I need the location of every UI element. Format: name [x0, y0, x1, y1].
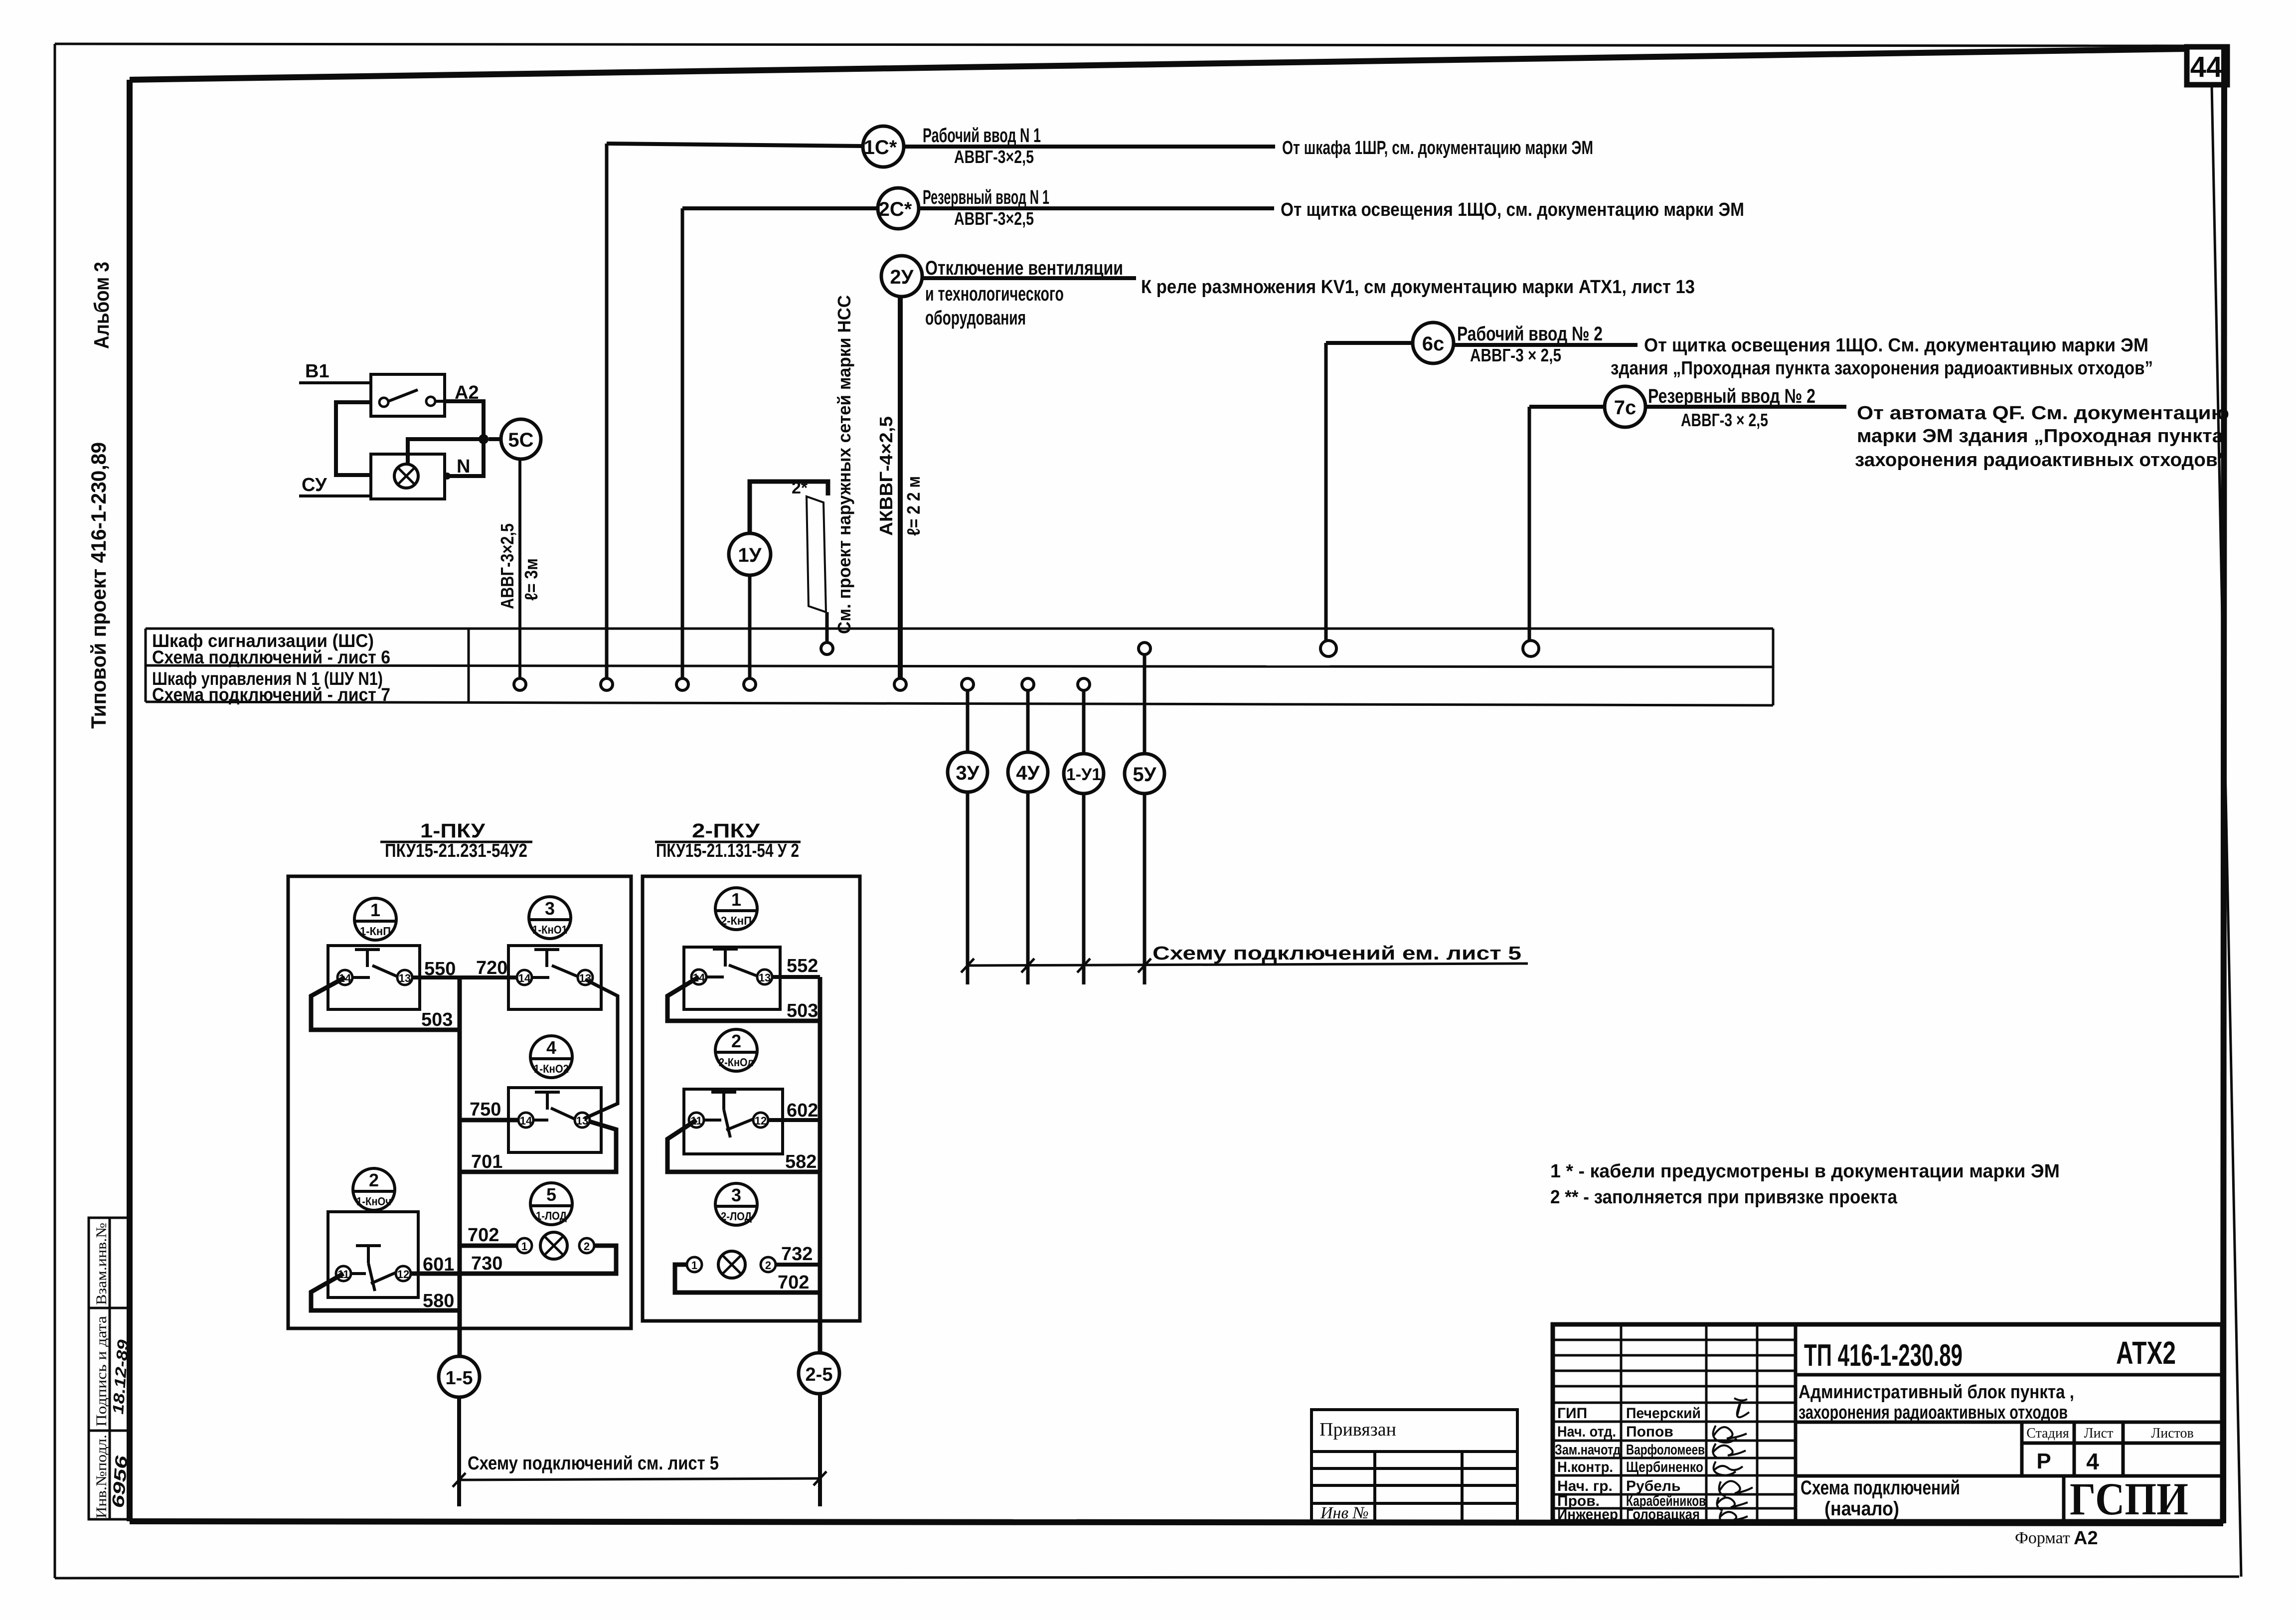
- svg-text:От автомата QF. См. документац: От автомата QF. См. документацию: [1857, 403, 2229, 424]
- tick marks: [961, 959, 1151, 972]
- svg-text:1-У1: 1-У1: [1066, 765, 1101, 784]
- svg-text:оборудования: оборудования: [925, 307, 1026, 329]
- svg-text:5: 5: [546, 1184, 556, 1205]
- svg-text:1-КнО1: 1-КнО1: [532, 923, 567, 936]
- svg-text:44: 44: [2190, 51, 2223, 83]
- wire below 1-5: [457, 1397, 461, 1506]
- contact symbol: [704, 1092, 753, 1137]
- node terminal 1C at bus: [601, 678, 613, 690]
- svg-text:14: 14: [518, 972, 531, 984]
- svg-text:ℓ= 3м: ℓ= 3м: [521, 558, 541, 601]
- wire 503 (2-ПКУ): [667, 977, 820, 1021]
- pin 13: [397, 970, 412, 985]
- svg-text:Р: Р: [2036, 1449, 2051, 1473]
- svg-text:Схема подключений - лист 7: Схема подключений - лист 7: [152, 684, 390, 705]
- switch contact left: [379, 398, 388, 407]
- svg-text:ГИП: ГИП: [1557, 1405, 1587, 1422]
- node terminal 1У1 at bus: [1078, 678, 1090, 690]
- svg-text:Резервный ввод N 1: Резервный ввод N 1: [923, 186, 1049, 208]
- panel box 1-ПКУ: [288, 876, 631, 1328]
- svg-text:Рабочий ввод № 2: Рабочий ввод № 2: [1457, 323, 1603, 345]
- pin 14: [337, 970, 352, 985]
- contact block 1-КнОч: [328, 1212, 418, 1297]
- lamp pin 1: [687, 1257, 702, 1272]
- svg-text:Головацкая: Головацкая: [1626, 1506, 1700, 1523]
- svg-text:АВВГ-3 × 2,5: АВВГ-3 × 2,5: [1470, 345, 1561, 365]
- svg-text:503: 503: [421, 1009, 453, 1030]
- svg-text:ПКУ15-21.231-54У2: ПКУ15-21.231-54У2: [385, 840, 527, 861]
- wire 730 return: [460, 1246, 616, 1274]
- svg-text:3У: 3У: [956, 762, 980, 784]
- svg-text:(начало): (начало): [1824, 1498, 1899, 1520]
- svg-text:1-КнО2: 1-КнО2: [534, 1062, 569, 1075]
- wire feeder 6с drop to bus: [1324, 343, 1328, 641]
- svg-text:2: 2: [731, 1031, 741, 1051]
- wire lamp feed from junction: [408, 439, 484, 464]
- node terminal 5У at bus: [1139, 643, 1150, 654]
- svg-text:702: 702: [468, 1225, 499, 1246]
- lamp pin 2: [761, 1257, 776, 1272]
- wire feeder 1C horizontal: [607, 144, 863, 146]
- node 4У circle: [1008, 752, 1048, 792]
- svg-text:А2: А2: [2074, 1528, 2098, 1549]
- pin 14: [691, 970, 706, 984]
- wire 1У riser to НСС: [750, 482, 828, 533]
- svg-text:7с: 7с: [1614, 397, 1637, 419]
- wire 5У: [1143, 654, 1147, 984]
- wire СУ input: [299, 494, 372, 497]
- svg-text:Печерский: Печерский: [1626, 1405, 1701, 1422]
- svg-text:СУ: СУ: [302, 475, 327, 495]
- node 3У circle: [948, 752, 987, 792]
- wire 702 return (2-ПКУ): [675, 1265, 820, 1293]
- svg-text:Схема подключений: Схема подключений: [1801, 1477, 1960, 1499]
- lamp pin 1: [517, 1238, 532, 1253]
- svg-text:2 ** - заполняется при привя: 2 ** - заполняется при привязке проекта: [1550, 1187, 1898, 1208]
- svg-text:730: 730: [471, 1253, 502, 1274]
- svg-text:1-ПКУ: 1-ПКУ: [420, 820, 486, 842]
- contact symbol: [351, 1246, 396, 1291]
- contact block 1-КнП: [328, 946, 420, 1009]
- lamp 1-ЛОД: [540, 1232, 567, 1259]
- svg-text:3: 3: [545, 898, 555, 919]
- svg-text:ℓ= 2 2 м: ℓ= 2 2 м: [903, 476, 924, 536]
- node 5У circle: [1125, 754, 1164, 794]
- svg-text:Щербиненко: Щербиненко: [1626, 1459, 1703, 1475]
- svg-text:Лист: Лист: [2084, 1426, 2114, 1441]
- svg-text:580: 580: [423, 1291, 454, 1311]
- margin stamp table (rotated): [89, 1218, 131, 1519]
- device circle 1 / 1-КнП: [354, 898, 396, 940]
- wire bypass left: [336, 402, 371, 475]
- contact symbol: [706, 949, 757, 977]
- lamp box: [371, 454, 445, 499]
- node terminal 2У at bus: [894, 678, 906, 690]
- wire 582: [667, 1120, 820, 1172]
- svg-text:1-КнП: 1-КнП: [360, 925, 391, 938]
- node 5C circle: [501, 419, 541, 459]
- svg-text:Н.контр.: Н.контр.: [1557, 1459, 1613, 1475]
- wire feeder 1C drop to bus: [605, 144, 609, 678]
- title block frame: [1553, 1324, 2222, 1521]
- contact block 2-КнП: [684, 947, 780, 1009]
- svg-text:марки ЭМ здания „Проходная пун: марки ЭМ здания „Проходная пункта: [1857, 426, 2224, 447]
- svg-text:582: 582: [785, 1151, 817, 1172]
- pin 14: [517, 970, 532, 985]
- pin 13: [578, 970, 593, 985]
- wire feeder 2У underline: [922, 276, 1136, 280]
- node 6с circle: [1413, 323, 1454, 363]
- device circle 1 / 2-КнП: [715, 888, 757, 930]
- svg-text:720: 720: [476, 958, 507, 978]
- wire 550/720: [412, 975, 517, 979]
- lamp pin 2: [579, 1238, 594, 1253]
- node terminal 6с at bus: [1320, 641, 1336, 656]
- svg-text:В1: В1: [305, 361, 329, 382]
- pin 11: [689, 1113, 704, 1128]
- svg-text:Инв №: Инв №: [1320, 1504, 1369, 1522]
- svg-text:1: 1: [370, 900, 380, 920]
- svg-text:5У: 5У: [1133, 764, 1156, 786]
- device circle 4 / 1-КнО2: [530, 1036, 572, 1078]
- svg-text:1-ЛОД: 1-ЛОД: [536, 1209, 567, 1222]
- wire 602: [768, 1118, 820, 1122]
- wire 732: [776, 1263, 820, 1267]
- wire 3У: [966, 690, 970, 984]
- svg-text:АВВГ-3×2,5: АВВГ-3×2,5: [954, 147, 1034, 167]
- svg-text:750: 750: [470, 1099, 501, 1120]
- svg-text:N: N: [457, 456, 470, 477]
- pin 12: [753, 1113, 768, 1128]
- pin 11: [336, 1266, 351, 1281]
- device circle 2 / 2-КнОл: [715, 1029, 757, 1071]
- svg-text:АТХ2: АТХ2: [2116, 1335, 2176, 1371]
- svg-text:От щитка освещения 1ЩО. См. до: От щитка освещения 1ЩО. См. документацию…: [1644, 335, 2148, 356]
- svg-text:2-ЛОД: 2-ЛОД: [721, 1210, 752, 1223]
- svg-text:Нач. гр.: Нач. гр.: [1557, 1478, 1613, 1494]
- svg-text:ГСПИ: ГСПИ: [2070, 1473, 2188, 1524]
- svg-text:2*: 2*: [792, 479, 808, 497]
- svg-text:2: 2: [584, 1240, 590, 1253]
- node 7с circle: [1605, 386, 1645, 427]
- svg-text:732: 732: [781, 1244, 813, 1265]
- switch contact right: [426, 397, 435, 406]
- node terminal 3У at bus: [962, 678, 974, 690]
- signatures: [1713, 1398, 1753, 1523]
- svg-text:АВВГ-3×2,5: АВВГ-3×2,5: [497, 523, 517, 609]
- node 1У1 circle: [1064, 754, 1104, 794]
- svg-text:3: 3: [731, 1185, 741, 1205]
- wire feeder 7с to text: [1645, 405, 1846, 409]
- pin 13: [757, 970, 772, 984]
- wire feeder 2У drop to bus (АКВВГ): [898, 297, 903, 678]
- svg-text:4У: 4У: [1016, 762, 1040, 784]
- cabinet table box (ШС/ШУ): [146, 629, 1773, 705]
- svg-text:1: 1: [521, 1240, 527, 1253]
- switch box A2: [371, 374, 445, 416]
- svg-text:Инв.№подл.: Инв.№подл.: [93, 1435, 110, 1518]
- wire feeder 1C to text: [904, 145, 1275, 149]
- svg-text:702: 702: [778, 1272, 809, 1293]
- wire 503: [311, 977, 460, 1030]
- wire 1У1: [1082, 690, 1086, 984]
- device circle 5 / 1-ЛОД: [530, 1183, 572, 1225]
- wire feeder 7с horizontal left: [1529, 405, 1605, 409]
- contact symbol: [532, 950, 578, 977]
- pin 13: [575, 1113, 590, 1128]
- device circle 3 / 1-КнО1: [529, 897, 571, 939]
- svg-text:АВВГ-3 × 2,5: АВВГ-3 × 2,5: [1681, 410, 1768, 430]
- node terminal 5C at bus: [514, 678, 526, 690]
- svg-text:1У: 1У: [738, 544, 762, 566]
- wire feeder 6с horizontal left: [1326, 341, 1413, 345]
- svg-text:Схему подключений см. лист 5: Схему подключений см. лист 5: [468, 1453, 719, 1474]
- svg-text:Зам.начотд: Зам.начотд: [1555, 1442, 1621, 1458]
- svg-text:2У: 2У: [890, 266, 914, 288]
- svg-text:6с: 6с: [1422, 333, 1445, 355]
- svg-text:Резервный ввод № 2: Резервный ввод № 2: [1648, 385, 1815, 407]
- svg-text:2-5: 2-5: [806, 1364, 833, 1385]
- svg-text:Варфоломеев: Варфоломеев: [1626, 1442, 1705, 1458]
- panel box 2-ПКУ: [643, 876, 860, 1321]
- svg-text:1 * - кабели предусмотрены: 1 * - кабели предусмотрены в документаци…: [1550, 1161, 2060, 1182]
- svg-text:4: 4: [546, 1037, 556, 1058]
- svg-text:1С*: 1С*: [864, 137, 897, 159]
- node 1C* circle: [863, 126, 904, 167]
- wire 552: [772, 975, 820, 979]
- svg-text:2: 2: [369, 1170, 379, 1190]
- svg-text:552: 552: [787, 956, 818, 976]
- contact block 2-КнОл: [684, 1089, 783, 1154]
- wire 1У drop to bus: [748, 575, 752, 678]
- svg-text:Инженер: Инженер: [1557, 1506, 1618, 1523]
- wire N: [447, 439, 484, 476]
- svg-text:захоронения радиоактивных отхо: захоронения радиоактивных отходов”: [1855, 450, 2227, 471]
- node dot N/A2 junction: [479, 434, 489, 444]
- svg-text:4: 4: [2086, 1449, 2099, 1474]
- svg-text:1: 1: [731, 889, 741, 910]
- svg-text:Рубель: Рубель: [1626, 1478, 1680, 1494]
- svg-text:2С*: 2С*: [879, 198, 912, 220]
- svg-text:АКВВГ-4×2,5: АКВВГ-4×2,5: [876, 416, 896, 536]
- device circle 3 / 2-ЛОД: [715, 1183, 757, 1225]
- svg-text:Нач. отд.: Нач. отд.: [1557, 1424, 1616, 1440]
- svg-text:2-КнП: 2-КнП: [721, 914, 752, 927]
- svg-text:здания „Проходная пункта захор: здания „Проходная пункта захоронения рад…: [1611, 358, 2153, 379]
- svg-text:13: 13: [399, 972, 411, 984]
- svg-text:От щитка освещения 1ЩО, см. до: От щитка освещения 1ЩО, см. документацию…: [1281, 199, 1744, 220]
- wire trunk B: [818, 977, 822, 1353]
- svg-text:12: 12: [397, 1268, 409, 1281]
- wire feeder 2C drop to bus: [681, 208, 684, 678]
- wire feeder 2C horizontal: [682, 206, 878, 210]
- svg-text:Стадия: Стадия: [2026, 1426, 2069, 1441]
- svg-text:5С: 5С: [508, 429, 533, 451]
- svg-text:Отключение вентиляции: Отключение вентиляции: [925, 257, 1123, 279]
- svg-text:1: 1: [691, 1259, 697, 1272]
- contact block 1-КнО1: [508, 946, 601, 1009]
- lamp 2-ЛОД: [718, 1251, 745, 1278]
- dimension line (см. лист 5, bottom): [459, 1478, 820, 1480]
- node 2У circle: [881, 256, 922, 297]
- contact symbol: [533, 1092, 575, 1120]
- svg-text:Листов: Листов: [2151, 1426, 2194, 1441]
- svg-text:Рабочий ввод N 1: Рабочий ввод N 1: [923, 125, 1041, 147]
- node terminal 7с at bus: [1523, 641, 1539, 656]
- contact symbol: [352, 950, 397, 977]
- device circle 2 / 1-КнОч: [353, 1168, 395, 1210]
- connector strip symbol (2*): [807, 496, 826, 612]
- node 1У circle: [729, 533, 771, 575]
- node terminal 2C at bus: [676, 678, 688, 690]
- svg-text:14: 14: [520, 1115, 532, 1127]
- svg-text:Альбом 3: Альбом 3: [90, 262, 113, 349]
- pin 12: [396, 1266, 411, 1281]
- node 2C* circle: [878, 188, 919, 229]
- wire junction to 5C: [489, 437, 501, 441]
- svg-text:Схему подключений ем. лист 5: Схему подключений ем. лист 5: [1152, 943, 1521, 964]
- wire 5C drop to bus: [518, 459, 521, 678]
- wire 4У: [1026, 690, 1030, 984]
- node terminal 4У at bus: [1022, 678, 1034, 690]
- svg-text:Типовой проект 416-1-230,89: Типовой проект 416-1-230,89: [87, 442, 110, 729]
- svg-text:2: 2: [765, 1259, 771, 1272]
- wire feeder 2C to text: [919, 206, 1274, 210]
- wire B1 input: [299, 381, 372, 384]
- svg-text:602: 602: [787, 1100, 818, 1121]
- wire feeder 7с drop to bus: [1528, 407, 1531, 641]
- svg-text:См. проект наружных сетей марк: См. проект наружных сетей марки НСС: [834, 295, 854, 634]
- node terminal 1У at bus: [744, 678, 756, 690]
- Привязан table: [1312, 1410, 1517, 1522]
- sheet number box 44: [2187, 47, 2227, 85]
- svg-text:2-КнОл: 2-КнОл: [719, 1056, 754, 1069]
- svg-text:Схема подключений - лист 6: Схема подключений - лист 6: [152, 647, 390, 667]
- svg-text:АВВГ-3×2,5: АВВГ-3×2,5: [954, 208, 1034, 229]
- svg-text:и технологического: и технологического: [925, 283, 1064, 305]
- contact block 1-КнО2: [508, 1088, 601, 1152]
- wire A2 to junction: [445, 401, 484, 438]
- wire below 2-5: [818, 1394, 822, 1506]
- svg-text:ТП 416-1-230.89: ТП 416-1-230.89: [1804, 1338, 1963, 1373]
- svg-text:ПКУ15-21.131-54 У 2: ПКУ15-21.131-54 У 2: [656, 840, 799, 861]
- svg-text:1-5: 1-5: [446, 1368, 473, 1389]
- node terminal НСС at bus: [821, 643, 833, 654]
- svg-text:1-КнОч: 1-КнОч: [356, 1195, 391, 1208]
- wire 601: [411, 1272, 460, 1276]
- wire НСС drop to bus: [825, 612, 829, 643]
- svg-text:захоронения радиоактивных от: захоронения радиоактивных отходов: [1799, 1402, 2068, 1423]
- svg-text:503: 503: [787, 1000, 818, 1021]
- wire 750: [460, 1118, 518, 1123]
- svg-text:Формат: Формат: [2015, 1529, 2070, 1547]
- svg-text:Взам.инв.№: Взам.инв.№: [93, 1223, 110, 1305]
- svg-text:К реле размножения KV1, см док: К реле размножения KV1, см документацию …: [1141, 277, 1695, 298]
- title block grid: [1553, 1324, 1796, 1521]
- dimension line (см. лист 5, middle): [966, 964, 1528, 966]
- svg-text:12: 12: [755, 1115, 767, 1127]
- wire 701: [460, 1122, 616, 1172]
- svg-text:Подпись и дата: Подпись и дата: [93, 1316, 110, 1427]
- lamp symbol: [394, 464, 418, 488]
- node 2-5 circle: [799, 1353, 839, 1394]
- node 1-5 circle: [439, 1356, 480, 1397]
- svg-text:2-ПКУ: 2-ПКУ: [692, 820, 760, 842]
- wire 580: [311, 1274, 460, 1310]
- svg-text:701: 701: [471, 1151, 502, 1172]
- wire trunk A: [458, 977, 462, 1356]
- wire 702: [460, 1244, 517, 1248]
- svg-text:13: 13: [759, 971, 771, 984]
- svg-text:От шкафа 1ШР, см. документацию: От шкафа 1ШР, см. документацию марки ЭМ: [1282, 138, 1593, 159]
- switch lever: [388, 390, 418, 401]
- wire 13-13 link: [584, 979, 618, 1119]
- wire feeder 6с to text: [1454, 343, 1638, 347]
- svg-text:Привязан: Привязан: [1319, 1419, 1396, 1440]
- svg-text:6956: 6956: [109, 1455, 131, 1509]
- svg-text:Административный блок пункта: Административный блок пункта ,: [1799, 1382, 2074, 1403]
- svg-text:Попов: Попов: [1626, 1424, 1673, 1440]
- pin 14: [518, 1113, 533, 1128]
